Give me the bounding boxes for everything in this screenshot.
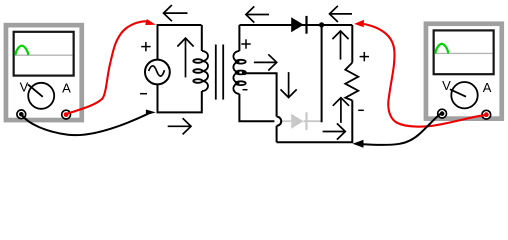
wire primary stem top (201, 25, 203, 51)
arrow current left-bottom (A4) (168, 118, 191, 134)
arrow current left-top (A1) (164, 5, 188, 21)
red probe arrowhead left (145, 19, 156, 25)
red probe wire left (66, 21, 149, 114)
meter M2 red terminal (482, 110, 491, 119)
meter M1 dial (28, 83, 54, 109)
meter M1 red terminal (62, 110, 71, 119)
inductor L1 (transformer primary) (193, 51, 208, 91)
meter M1 needle (28, 85, 43, 97)
meter M1 green waveform (15, 46, 28, 56)
svg-text:A: A (483, 80, 492, 95)
arrow current tap down (A9) (281, 72, 297, 97)
wire secondary stem top (238, 25, 240, 51)
red probe arrowhead right (354, 20, 364, 28)
diode D1 (291, 16, 306, 34)
meter M2 screen (434, 30, 494, 74)
black probe arrowhead right (353, 140, 364, 148)
resistor R1 (345, 63, 358, 101)
label source plus (141, 42, 150, 51)
meter M2 green waveform (435, 44, 448, 54)
meter M1 black terminal (17, 110, 26, 119)
meter M1 screen (14, 32, 74, 76)
arrow current primary up (A6) (177, 38, 193, 77)
meter M1 screen centerline (15, 54, 73, 56)
label resistor minus (358, 109, 364, 111)
meter M2 dial (451, 82, 477, 108)
meter M1 (left multimeter) (6, 25, 82, 120)
diode D2 (non-conducting, gray) (280, 112, 320, 130)
meter M2 frame (426, 24, 502, 119)
black probe wire left (21, 114, 148, 135)
wire source loop top (158, 25, 202, 60)
wire source loop bottom (158, 84, 202, 112)
arrow current right-top (A3) (330, 6, 353, 22)
node center tap dot (242, 70, 247, 75)
svg-text:A: A (62, 80, 71, 95)
wire hop over secondary-bottom wire (277, 117, 282, 126)
arrow current center tap (A5) (254, 54, 277, 70)
label secondary plus (241, 39, 250, 48)
arrow current load up (A8) (333, 98, 349, 123)
wire resistor bottom (277, 100, 353, 142)
wire right branch with resistor (351, 25, 353, 63)
red probe wire right (364, 24, 486, 127)
wire secondary stem bottom (239, 94, 274, 121)
wire node to dead diode (321, 25, 323, 122)
meter M2 (right multimeter) (426, 24, 502, 119)
label resistor plus (360, 52, 369, 61)
label secondary minus (243, 89, 248, 91)
black probe arrowhead left (146, 110, 156, 116)
arrow current node up (A7) (332, 31, 348, 60)
meter M1 frame (6, 25, 82, 120)
node A (junction dot) (319, 22, 324, 27)
meter M2 needle (450, 89, 466, 96)
meter M2 black terminal (438, 109, 447, 118)
label source minus (140, 93, 147, 95)
wire center tap return (244, 73, 276, 142)
wire top rail (239, 24, 352, 26)
svg-text:V: V (20, 79, 29, 94)
black probe wire right (363, 113, 442, 145)
arrow current bottom right (A10) (323, 123, 346, 139)
arrow current secondary-top (A2) (246, 6, 269, 22)
meter M2 screen centerline (435, 52, 493, 54)
transformer core (215, 45, 217, 100)
inductor L2 (transformer secondary) (233, 51, 245, 94)
svg-text:V: V (442, 78, 451, 93)
source V1 (AC source) (145, 60, 170, 85)
